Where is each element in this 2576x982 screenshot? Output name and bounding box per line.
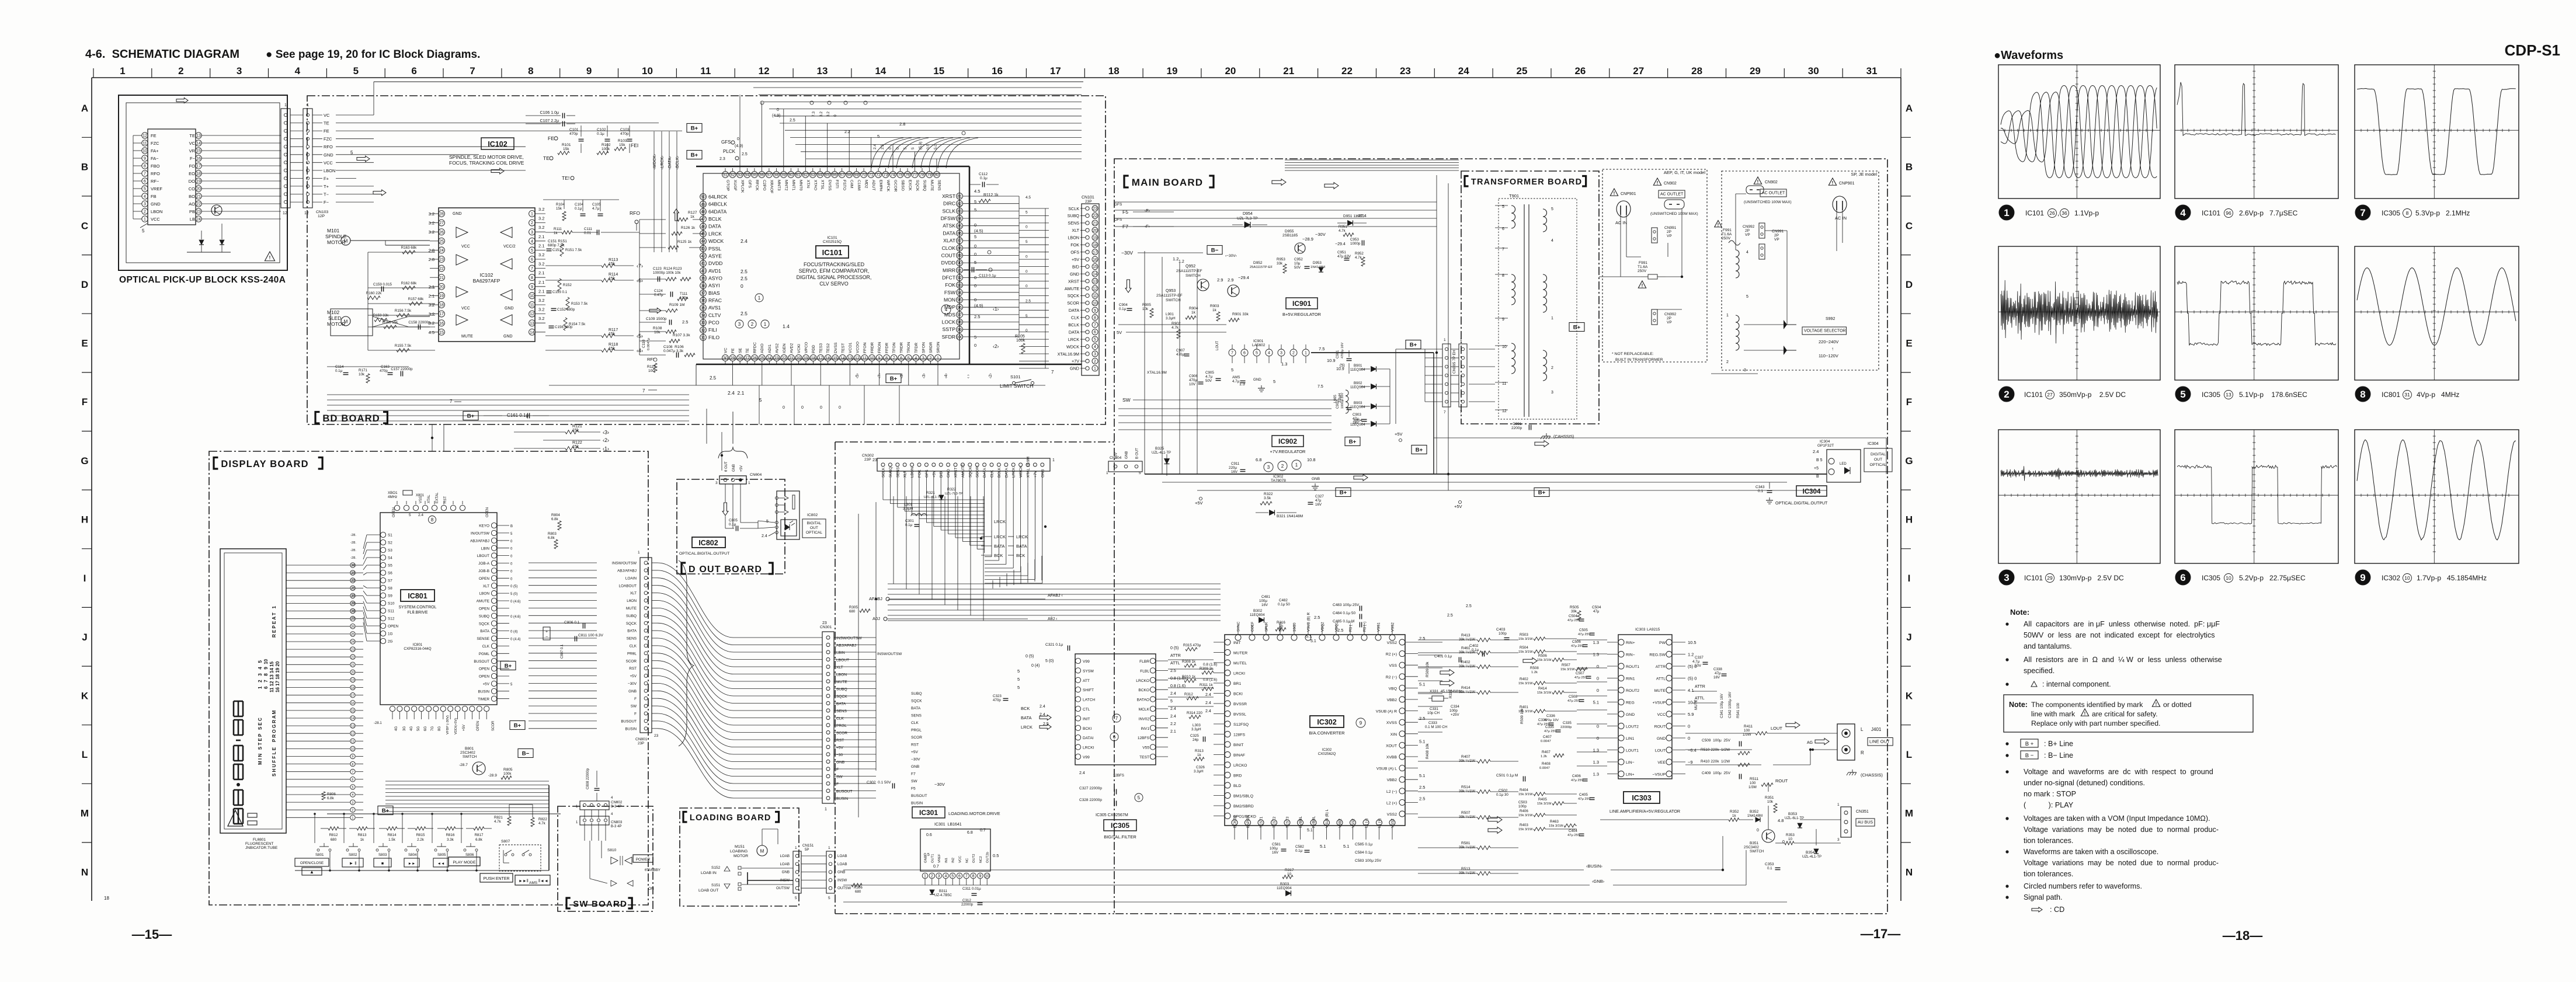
svg-text:R509 10k: R509 10k bbox=[1520, 708, 1524, 724]
svg-text:M: M bbox=[344, 319, 348, 325]
IC101 bottom pins 30-1 bbox=[722, 355, 729, 361]
board outline LOADING BOARD bbox=[680, 808, 799, 906]
svg-text:(UNSWITCHED 100W MAX): (UNSWITCHED 100W MAX) bbox=[1744, 200, 1792, 204]
svg-text:B: B bbox=[81, 162, 88, 173]
svg-text:1: 1 bbox=[937, 357, 939, 361]
svg-text:EXCK: EXCK bbox=[908, 180, 912, 191]
svg-text:VCC/2: VCC/2 bbox=[503, 245, 516, 249]
svg-text:F: F bbox=[836, 768, 839, 772]
svg-text:IC902: IC902 bbox=[1278, 437, 1297, 445]
svg-text:AEP, G, IT, UK model: AEP, G, IT, UK model bbox=[1664, 170, 1705, 175]
optical jack prongs bbox=[778, 497, 785, 499]
svg-text:2.4: 2.4 bbox=[741, 238, 748, 244]
svg-text:1.1Vp-p: 1.1Vp-p bbox=[2074, 209, 2099, 217]
svg-text:5: 5 bbox=[974, 207, 976, 213]
CN301 pin BUSOUT bbox=[826, 789, 830, 793]
svg-text:S152: S152 bbox=[711, 866, 721, 870]
IC303 pin right PW bbox=[1666, 639, 1672, 645]
svg-text:2: 2 bbox=[1726, 360, 1729, 364]
svg-text:15: 15 bbox=[196, 149, 201, 154]
pickup pin FBO bbox=[142, 163, 148, 169]
svg-text:2.9: 2.9 bbox=[1228, 277, 1233, 283]
svg-text:C327 22000p: C327 22000p bbox=[1079, 786, 1102, 791]
svg-text:4: 4 bbox=[944, 875, 947, 879]
svg-text:‹4›: ‹4› bbox=[944, 373, 948, 378]
svg-text:62: 62 bbox=[803, 173, 808, 177]
svg-text:RFCK: RFCK bbox=[755, 180, 759, 191]
svg-text:1k: 1k bbox=[1197, 753, 1201, 757]
svg-text:BIGITAL.FILTER: BIGITAL.FILTER bbox=[1104, 834, 1136, 840]
svg-text:LOAB OUT: LOAB OUT bbox=[698, 889, 718, 893]
svg-text:REG: REG bbox=[1626, 701, 1635, 705]
svg-text:VSUB (B) L: VSUB (B) L bbox=[1325, 809, 1329, 828]
svg-text:X331 45.1584MHz: X331 45.1584MHz bbox=[1430, 690, 1462, 694]
svg-text:0 (5): 0 (5) bbox=[1025, 654, 1034, 659]
signal arrows main board bbox=[1272, 179, 1286, 186]
svg-text:S7: S7 bbox=[388, 579, 392, 583]
svg-text:100k: 100k bbox=[503, 772, 512, 776]
svg-text:,: , bbox=[2057, 209, 2059, 217]
svg-text:0: 0 bbox=[1782, 840, 1785, 844]
svg-text:‹WDCK›: ‹WDCK› bbox=[653, 154, 657, 169]
svg-text:18: 18 bbox=[1093, 243, 1097, 248]
IC801 left wire fan to FL tube bbox=[363, 535, 367, 549]
svg-text:R103: R103 bbox=[618, 139, 627, 143]
IC305 pin LRCKI bbox=[1075, 744, 1080, 750]
vertical signal drops WDCK LRCK DATA BCLK bbox=[653, 131, 655, 252]
svg-text:V55: V55 bbox=[1142, 746, 1149, 750]
svg-text:C504: C504 bbox=[1592, 605, 1601, 610]
svg-text:2: 2 bbox=[1292, 351, 1295, 356]
svg-text:LθON: LθON bbox=[627, 599, 637, 603]
svg-text:47μ 25V: 47μ 25V bbox=[1571, 645, 1584, 648]
svg-text:11: 11 bbox=[863, 357, 867, 361]
svg-text:LBON: LBON bbox=[910, 467, 915, 478]
svg-text:2.5: 2.5 bbox=[1025, 300, 1031, 304]
svg-text:XTAL 16.9M: XTAL 16.9M bbox=[1027, 457, 1031, 478]
wires CN804 down bbox=[725, 484, 726, 502]
svg-text:+5V: +5V bbox=[1395, 431, 1403, 437]
svg-text:C911: C911 bbox=[1231, 462, 1240, 466]
svg-text:PRGL: PRGL bbox=[911, 729, 922, 733]
svg-text:SW: SW bbox=[1122, 397, 1131, 403]
svg-text:9: 9 bbox=[531, 285, 533, 289]
svg-text:INSW: INSW bbox=[837, 878, 847, 882]
svg-text:+5V: +5V bbox=[1454, 504, 1462, 509]
svg-text:C338: C338 bbox=[1713, 667, 1722, 671]
svg-text:!: ! bbox=[1757, 179, 1759, 184]
svg-text:C102: C102 bbox=[597, 128, 606, 132]
svg-text:0 (4.6): 0 (4.6) bbox=[510, 600, 520, 604]
svg-text:17: 17 bbox=[439, 312, 444, 316]
svg-text:−30V: −30V bbox=[1315, 232, 1326, 237]
svg-text:AVD2: AVD2 bbox=[790, 343, 794, 353]
svg-text:GCOR: GCOR bbox=[894, 180, 898, 191]
svg-text:◄◄: ◄◄ bbox=[437, 862, 445, 866]
connector CN801 23P bbox=[640, 558, 652, 733]
svg-text:C953: C953 bbox=[1350, 238, 1359, 242]
svg-text:S807: S807 bbox=[501, 840, 510, 844]
svg-text:8: 8 bbox=[144, 165, 146, 169]
svg-text:35: 35 bbox=[701, 307, 705, 311]
svg-text:5: 5 bbox=[352, 786, 354, 789]
svg-text:5: 5 bbox=[1138, 795, 1141, 800]
connector CN103 column B bbox=[303, 109, 312, 208]
svg-text:0.1: 0.1 bbox=[1758, 489, 1763, 493]
svg-text:S806: S806 bbox=[465, 853, 474, 857]
svg-text:3: 3 bbox=[1744, 368, 1746, 372]
wires display CN801 to main CN301 cross-gap bbox=[652, 562, 658, 563]
sig arrows right of IC302 bbox=[1440, 670, 1454, 676]
svg-text:GND: GND bbox=[1626, 713, 1635, 717]
small circles on bus (test points) bbox=[760, 101, 764, 105]
svg-text:98: 98 bbox=[957, 321, 962, 325]
IC801 top pins bbox=[394, 505, 399, 510]
svg-text:θTANBBY: θTANBBY bbox=[645, 869, 660, 872]
svg-text:R E P E A T 1: R E P E A T 1 bbox=[272, 606, 277, 638]
svg-text:SHIFT: SHIFT bbox=[1083, 688, 1094, 692]
svg-text:MUTE: MUTE bbox=[461, 335, 473, 339]
svg-text:20: 20 bbox=[797, 357, 801, 361]
svg-text:15k: 15k bbox=[619, 143, 625, 147]
svg-text:R314 220: R314 220 bbox=[1187, 711, 1202, 715]
CN101 pin GND bbox=[1086, 272, 1089, 276]
svg-text:R313: R313 bbox=[1195, 749, 1204, 753]
svg-text:CN992: CN992 bbox=[1743, 225, 1755, 229]
svg-text:2.1: 2.1 bbox=[538, 270, 544, 276]
svg-text:LBIN: LBIN bbox=[481, 546, 490, 551]
svg-text:7: 7 bbox=[1460, 410, 1462, 415]
svg-text:LOABING: LOABING bbox=[730, 849, 748, 854]
wire bus top right area horizontal group bbox=[1285, 159, 1459, 161]
svg-text:Signal path.: Signal path. bbox=[2024, 893, 2063, 901]
svg-text:R109 1M: R109 1M bbox=[669, 303, 684, 307]
resistor/cap R156 bbox=[397, 314, 409, 317]
svg-text:B+: B+ bbox=[691, 126, 698, 132]
CN301 pin XLT bbox=[826, 665, 830, 668]
IC302 bottom pins bbox=[1232, 820, 1237, 826]
svg-text:SE: SE bbox=[739, 347, 743, 353]
svg-text:‹6›: ‹6› bbox=[637, 278, 643, 284]
svg-text:19: 19 bbox=[351, 679, 354, 682]
svg-text:Note:: Note: bbox=[2009, 701, 2028, 709]
svg-text:−30V: −30V bbox=[628, 682, 637, 686]
svg-text:TEST1: TEST1 bbox=[1260, 816, 1264, 828]
svg-text:Note:: Note: bbox=[2010, 608, 2029, 617]
B+ label top2 bbox=[687, 151, 702, 159]
svg-text:‹2›: ‹2› bbox=[603, 437, 609, 443]
IC305 pin right BCKO bbox=[1150, 687, 1155, 692]
svg-text:VFBP (-30V): VFBP (-30V) bbox=[446, 715, 450, 734]
plus minus boxed bbox=[543, 627, 550, 640]
svg-text:ASYO: ASYO bbox=[708, 276, 722, 281]
CN302 pin XRST bbox=[954, 463, 957, 466]
svg-text:2SC3402: 2SC3402 bbox=[1744, 845, 1759, 849]
svg-text:470p: 470p bbox=[380, 369, 388, 373]
CN301 pin INSW/OUTSW bbox=[826, 636, 830, 639]
svg-text:S810: S810 bbox=[607, 848, 617, 852]
vertical bus from staircase down bbox=[992, 580, 993, 588]
board outline MAIN BOARD upper bbox=[1114, 159, 1887, 914]
svg-text:25: 25 bbox=[439, 239, 444, 243]
svg-text:C501 0.1μ M: C501 0.1μ M bbox=[1496, 774, 1518, 778]
svg-text:26: 26 bbox=[351, 625, 354, 629]
CN301 pin LBIN bbox=[826, 650, 830, 654]
svg-text:4: 4 bbox=[1094, 345, 1096, 349]
svg-text:IC902: IC902 bbox=[1273, 475, 1284, 479]
svg-text:2: 2 bbox=[2004, 389, 2009, 400]
resistor/cap C157 bbox=[400, 371, 401, 377]
svg-text:680p 7.5k: 680p 7.5k bbox=[548, 243, 565, 248]
board outline TRANSFORMER BOARD bbox=[1461, 171, 1599, 424]
diode D2 pickup bbox=[220, 240, 224, 245]
wire bus BD board top to main (B+ top line) bbox=[374, 81, 1083, 82]
svg-text:BATA: BATA bbox=[627, 629, 637, 633]
svg-text:5: 5 bbox=[828, 896, 830, 900]
svg-text:C584 0.1μ: C584 0.1μ bbox=[1355, 851, 1372, 855]
svg-text:2: 2 bbox=[751, 322, 754, 327]
svg-text:27: 27 bbox=[439, 221, 444, 225]
board outline OPTICAL PICK-UP BLOCK inner bbox=[126, 103, 280, 263]
outlet icon AEP bbox=[1664, 200, 1684, 209]
svg-text:C811 100 6.3V: C811 100 6.3V bbox=[578, 633, 604, 638]
IC303 pin LIN− bbox=[1618, 759, 1624, 765]
svg-text:16V: 16V bbox=[1231, 470, 1238, 474]
svg-text:+5V: +5V bbox=[1072, 257, 1079, 262]
svg-text:R821: R821 bbox=[494, 816, 503, 820]
svg-text:‹1›: ‹1› bbox=[603, 446, 609, 452]
svg-text:Voltage and waveforms are: Voltage and waveforms are dc with respec… bbox=[2024, 768, 2213, 776]
svg-text:BO: BO bbox=[189, 194, 195, 199]
svg-text:VCC: VCC bbox=[151, 217, 160, 222]
svg-text:BATA: BATA bbox=[994, 544, 1004, 549]
svg-text:7.3: 7.3 bbox=[812, 112, 816, 117]
IC305 internal circled numbers bbox=[1113, 714, 1121, 722]
svg-text:39k ¼/1W: 39k ¼/1W bbox=[1459, 759, 1475, 763]
svg-text:8: 8 bbox=[431, 517, 434, 523]
svg-text:7: 7 bbox=[450, 399, 453, 404]
svg-text:8G: 8G bbox=[438, 726, 441, 731]
resistor/cap R158 bbox=[384, 325, 397, 329]
svg-text:BATA: BATA bbox=[480, 629, 489, 633]
svg-text:BVSSR: BVSSR bbox=[1233, 702, 1247, 706]
svg-text:25A1115TP-EF: 25A1115TP-EF bbox=[1250, 266, 1273, 269]
svg-text:2P: 2P bbox=[1667, 230, 1671, 234]
svg-text:BATA: BATA bbox=[1021, 715, 1031, 720]
svg-text:22: 22 bbox=[782, 357, 787, 361]
svg-text:θ OUT: θ OUT bbox=[725, 461, 728, 472]
svg-text:B-3 4P: B-3 4P bbox=[611, 825, 621, 828]
svg-text:1.3: 1.3 bbox=[1593, 760, 1599, 765]
svg-text:0: 0 bbox=[1688, 724, 1690, 729]
svg-text:GNB: GNB bbox=[837, 870, 845, 875]
svg-text:C: C bbox=[1906, 220, 1913, 231]
svg-text:TE!: TE! bbox=[562, 175, 569, 181]
waveform scope 9 (noisy sine) bbox=[2355, 430, 2519, 563]
IC303 pin right −VSUP bbox=[1666, 771, 1672, 777]
svg-text:24: 24 bbox=[439, 249, 444, 253]
svg-text:RFAC: RFAC bbox=[708, 298, 722, 304]
svg-text:B902: B902 bbox=[1354, 381, 1362, 385]
svg-text:R953: R953 bbox=[1277, 257, 1285, 262]
svg-text:LOUT: LOUT bbox=[1216, 341, 1219, 350]
svg-text:1: 1 bbox=[120, 65, 125, 76]
svg-text:23: 23 bbox=[872, 458, 877, 462]
svg-text:R122: R122 bbox=[572, 441, 582, 445]
pickup pin BO bbox=[196, 193, 201, 199]
svg-text:VSS2: VSS2 bbox=[1391, 819, 1395, 828]
svg-text:MCLK: MCLK bbox=[1139, 708, 1150, 712]
svg-text:FOK: FOK bbox=[918, 469, 922, 478]
svg-text:28: 28 bbox=[439, 213, 444, 217]
svg-text:47μ 25V: 47μ 25V bbox=[1578, 798, 1591, 801]
svg-text:CNθ04: CNθ04 bbox=[750, 473, 762, 477]
CN301 pin MUTE bbox=[826, 680, 830, 683]
IC101 circled refs bottom bbox=[735, 320, 743, 328]
svg-text:LOCK: LOCK bbox=[942, 319, 956, 325]
svg-text:3.2: 3.2 bbox=[538, 252, 544, 257]
svg-text:LOADING BOARD: LOADING BOARD bbox=[690, 813, 771, 823]
svg-text:3: 3 bbox=[2004, 572, 2009, 583]
IC305 pin SHIFT bbox=[1075, 687, 1080, 692]
svg-text:R153 7.5k: R153 7.5k bbox=[571, 302, 588, 306]
svg-text:B/A.CONVERTER: B/A.CONVERTER bbox=[1309, 730, 1345, 736]
CN302 pin B/D bbox=[939, 463, 943, 466]
CN101 pin B/D bbox=[1086, 264, 1089, 268]
svg-text:XTSL: XTSL bbox=[821, 180, 825, 190]
svg-text:68: 68 bbox=[847, 173, 851, 177]
svg-text:0.5: 0.5 bbox=[926, 144, 930, 149]
svg-text:0.7: 0.7 bbox=[980, 828, 986, 833]
svg-text:3.3μH: 3.3μH bbox=[903, 507, 913, 511]
svg-text:15k 3/1W: 15k 3/1W bbox=[1537, 691, 1552, 695]
svg-text:‹7›: ‹7› bbox=[637, 263, 643, 269]
svg-text:OFS: OFS bbox=[1114, 218, 1122, 222]
svg-text:20: 20 bbox=[196, 187, 201, 191]
svg-text:26: 26 bbox=[752, 357, 757, 361]
svg-text:23P: 23P bbox=[638, 741, 644, 746]
svg-text:XLT: XLT bbox=[483, 584, 489, 588]
FL tube pin circles bbox=[350, 563, 355, 567]
svg-text:VC: VC bbox=[324, 113, 330, 118]
svg-text:M: M bbox=[760, 849, 764, 854]
svg-text:SWITCH: SWITCH bbox=[1186, 274, 1201, 278]
CN301 pin RST bbox=[826, 738, 830, 741]
pickup pin VC bbox=[196, 140, 201, 146]
svg-text:GND: GND bbox=[453, 212, 462, 216]
svg-text:5G: 5G bbox=[417, 726, 420, 731]
svg-text:88: 88 bbox=[957, 246, 962, 250]
svg-text:9: 9 bbox=[144, 157, 146, 161]
svg-text:10: 10 bbox=[530, 294, 534, 298]
svg-text:S803: S803 bbox=[378, 853, 387, 857]
svg-text:R151 7.5k: R151 7.5k bbox=[565, 248, 582, 252]
switch cap rew bbox=[433, 858, 449, 867]
svg-text:R406: R406 bbox=[1520, 809, 1528, 813]
svg-text:3.2: 3.2 bbox=[429, 229, 434, 235]
svg-text:5V: 5V bbox=[1117, 330, 1122, 335]
IC301 body bbox=[920, 829, 990, 871]
svg-text:64BCLK: 64BCLK bbox=[708, 201, 727, 207]
svg-text:CDP-S1: CDP-S1 bbox=[2505, 41, 2560, 59]
svg-text:R: R bbox=[1861, 750, 1864, 755]
note bullet capacitors bbox=[2005, 622, 2008, 625]
wires loading board bbox=[742, 868, 793, 869]
svg-text:SENSE: SENSE bbox=[477, 637, 489, 641]
vertical junction bus right of IC101 bbox=[1018, 196, 1020, 337]
svg-text:0: 0 bbox=[888, 147, 892, 149]
waveform caption 1 IC101 26,36 1.1Vp-p bbox=[1999, 205, 2014, 220]
svg-text:LBON: LBON bbox=[479, 592, 490, 596]
svg-text:9: 9 bbox=[1094, 309, 1096, 313]
svg-text:‹ ›: ‹ › bbox=[967, 374, 971, 378]
svg-text:36: 36 bbox=[2062, 210, 2067, 216]
svg-text:IC302: IC302 bbox=[1317, 718, 1336, 726]
pickup pin FB bbox=[142, 193, 148, 199]
svg-text:XRST: XRST bbox=[1068, 278, 1080, 284]
wire switch row bottom bbox=[295, 870, 549, 871]
svg-text:3.2: 3.2 bbox=[826, 112, 830, 117]
svg-text:A: A bbox=[81, 103, 88, 114]
svg-text:B321 1N4148M: B321 1N4148M bbox=[1277, 514, 1303, 518]
wire pickup right pin to CN103 bbox=[201, 211, 281, 212]
IC303 pin right ATTL bbox=[1666, 675, 1672, 681]
svg-text:LED: LED bbox=[1840, 462, 1847, 466]
svg-text:R805: R805 bbox=[503, 768, 513, 772]
svg-text:24: 24 bbox=[767, 357, 771, 361]
svg-text:OPEN: OPEN bbox=[479, 675, 489, 679]
note bullet B+ line bbox=[2005, 742, 2008, 745]
svg-text:R322: R322 bbox=[947, 487, 956, 492]
svg-text:5: 5 bbox=[1273, 379, 1275, 384]
svg-text:24p: 24p bbox=[1193, 738, 1199, 742]
IC305 pin LATCH bbox=[1075, 697, 1080, 702]
svg-text:R118: R118 bbox=[609, 343, 618, 347]
svg-text:−30V: −30V bbox=[911, 758, 920, 762]
svg-text:16: 16 bbox=[826, 357, 830, 361]
wire pickup right pin to CN103 bbox=[201, 173, 281, 174]
svg-text:R102: R102 bbox=[602, 143, 611, 147]
svg-text:0.01: 0.01 bbox=[584, 231, 592, 235]
svg-text:LOADING.MOTOR.DRIVE: LOADING.MOTOR.DRIVE bbox=[948, 811, 1000, 816]
svg-text:LOUT1: LOUT1 bbox=[1626, 749, 1639, 753]
svg-text:CN101: CN101 bbox=[1082, 196, 1094, 200]
chassis ground transformer bbox=[1546, 433, 1547, 436]
svg-text:H: H bbox=[81, 514, 88, 525]
svg-text:17: 17 bbox=[1050, 65, 1061, 76]
svg-text:VCOO: VCOO bbox=[856, 342, 860, 353]
svg-text:ATT: ATT bbox=[1083, 679, 1090, 683]
svg-text:100: 100 bbox=[648, 369, 655, 373]
svg-text:R322: R322 bbox=[1264, 492, 1273, 496]
svg-text:IC102: IC102 bbox=[480, 272, 493, 278]
svg-text:5: 5 bbox=[144, 187, 146, 191]
svg-text:COEF: COEF bbox=[1251, 622, 1255, 632]
IC102 internal opamps bbox=[456, 227, 468, 238]
svg-text:R121: R121 bbox=[572, 424, 582, 429]
IC305 pin right MCLK bbox=[1150, 706, 1155, 711]
svg-text:SPLR: SPLR bbox=[1265, 622, 1269, 632]
svg-text:54: 54 bbox=[745, 173, 750, 177]
svg-text:81: 81 bbox=[957, 195, 962, 199]
svg-text:CX02515Q: CX02515Q bbox=[823, 240, 842, 244]
svg-text:BCKO: BCKO bbox=[1138, 688, 1149, 692]
FL digit 1 bbox=[233, 809, 235, 824]
S810 arrows bbox=[611, 880, 617, 886]
CN301 pin LBOUT bbox=[826, 658, 830, 661]
svg-text:86: 86 bbox=[957, 232, 962, 236]
svg-text:0: 0 bbox=[783, 406, 785, 410]
